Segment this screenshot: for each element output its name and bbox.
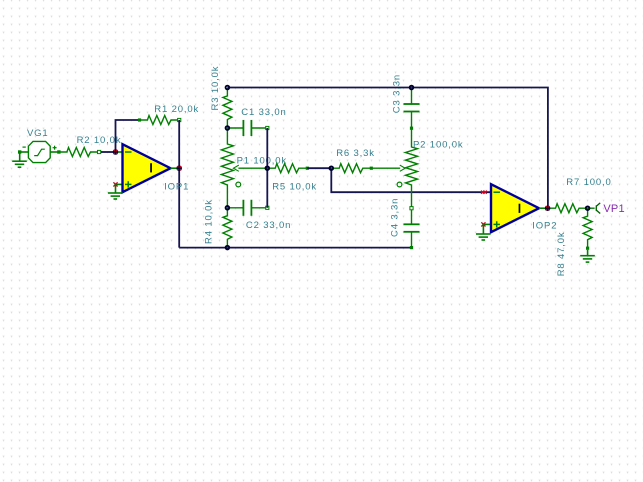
label R2 value xyxy=(77,135,122,146)
capacitor C3 xyxy=(404,88,420,130)
wire: R1 right down through IOP1 output to bottom rail xyxy=(178,120,180,248)
svg-text:C2 33,0n: C2 33,0n xyxy=(246,220,291,231)
label C1 value xyxy=(241,107,286,118)
label R7 value xyxy=(566,177,611,188)
capacitor C4 xyxy=(404,207,420,250)
svg-text:VG1: VG1 xyxy=(27,128,49,139)
wire: VG1 ground drop xyxy=(19,152,21,161)
op-amp IOP2 xyxy=(483,184,547,232)
svg-text:R6 3,3k: R6 3,3k xyxy=(336,148,375,159)
svg-text:P2 100,0k: P2 100,0k xyxy=(413,140,463,151)
wire: C1 right to C2 right vertical xyxy=(266,128,268,208)
terminal X: IOP2 non-inverting xyxy=(481,222,485,226)
resistor R2 xyxy=(59,148,101,157)
resistor R6 xyxy=(331,164,373,173)
node: R7/R8 junction xyxy=(586,206,590,210)
label P2 value xyxy=(413,140,463,151)
label VG1 xyxy=(27,128,49,139)
wire: R5 right to junction xyxy=(307,167,331,169)
label R1 value xyxy=(154,104,199,115)
ground (R8) xyxy=(580,256,595,262)
label R3 value xyxy=(210,66,221,111)
voltage generator VG1 xyxy=(18,141,61,162)
wire: top rail R3 to feedback corner xyxy=(227,88,548,209)
op-amp IOP1 xyxy=(116,144,180,192)
node: R4 bottom junction xyxy=(226,246,230,250)
label VP1 xyxy=(603,203,624,215)
terminal X: IOP2 inverting input xyxy=(481,191,487,194)
wire: R8 to ground xyxy=(587,250,589,255)
svg-text:R1 20,0k: R1 20,0k xyxy=(154,104,199,115)
node: R3/C1/P1 junction xyxy=(226,126,230,130)
svg-text:P1 100,0k: P1 100,0k xyxy=(237,155,287,166)
svg-text:R8 47,0k: R8 47,0k xyxy=(556,231,567,276)
label R5 value xyxy=(272,181,317,192)
wire: R7/R8 node to output terminal xyxy=(588,207,595,209)
potentiometer P2 xyxy=(397,128,417,208)
output terminal VP1 xyxy=(596,203,600,214)
svg-text:R5 10,0k: R5 10,0k xyxy=(272,181,317,192)
label IOP1 xyxy=(164,182,189,193)
label C4 value xyxy=(390,198,401,237)
svg-text:R4 10,0k: R4 10,0k xyxy=(204,199,215,244)
wire: IOP1 + input to ground xyxy=(115,184,117,192)
node A: IOP1 inverting input junction xyxy=(114,150,118,154)
resistor R7 xyxy=(548,204,588,213)
terminal X: IOP1 inverting input xyxy=(113,150,117,154)
potentiometer P1 xyxy=(221,128,267,208)
svg-text:IOP1: IOP1 xyxy=(164,182,189,193)
svg-text:R3 10,0k: R3 10,0k xyxy=(210,66,221,111)
ground (IOP1) xyxy=(108,193,123,199)
node: IOP2 output junction xyxy=(546,206,550,210)
label R6 value xyxy=(336,148,375,159)
ground (VG1) xyxy=(12,161,27,167)
terminal X: IOP1 output xyxy=(177,166,181,170)
node: C3 top junction xyxy=(410,86,414,90)
wire: node up to R1 left xyxy=(116,120,140,152)
wire: R6 right to P2 wiper xyxy=(371,165,405,171)
resistor R8 xyxy=(583,208,592,250)
svg-text:C4 3,3n: C4 3,3n xyxy=(390,198,401,237)
terminal X: IOP1 non-inverting xyxy=(113,182,117,186)
node: R5/R6 junction xyxy=(329,166,333,170)
svg-text:R7 100,0: R7 100,0 xyxy=(566,177,611,188)
svg-text:IOP2: IOP2 xyxy=(532,221,557,232)
label R4 value xyxy=(204,199,215,244)
svg-text:C1 33,0n: C1 33,0n xyxy=(241,107,286,118)
wire: junction down and right to IOP2 inverting input xyxy=(331,168,491,192)
terminal X: IOP2 output xyxy=(546,206,550,210)
wire: R2 to IOP1 inverting node xyxy=(101,151,116,153)
resistor R4 xyxy=(223,208,232,248)
label C2 value xyxy=(246,220,291,231)
ground (IOP2) xyxy=(476,234,491,240)
resistor R5 xyxy=(267,164,309,173)
wire: bottom rail xyxy=(179,247,411,249)
capacitor C2 xyxy=(227,200,269,216)
node: C2/P1/R4 junction xyxy=(226,206,230,210)
node B: IOP1 output junction xyxy=(177,166,181,170)
label P1 value xyxy=(237,155,287,166)
label R8 value xyxy=(556,231,567,276)
resistor R3 xyxy=(223,88,232,128)
wire: IOP2 + input to ground xyxy=(482,224,484,233)
resistor R1 xyxy=(138,116,181,125)
svg-text:VP1: VP1 xyxy=(603,203,624,215)
svg-text:C3 3,3n: C3 3,3n xyxy=(392,74,403,113)
label C3 value xyxy=(392,74,403,113)
node: P1 wiper / R5 junction xyxy=(265,166,269,170)
capacitor C1 xyxy=(227,120,269,136)
label IOP2 xyxy=(532,221,557,232)
node: R3 top junction xyxy=(226,86,230,90)
